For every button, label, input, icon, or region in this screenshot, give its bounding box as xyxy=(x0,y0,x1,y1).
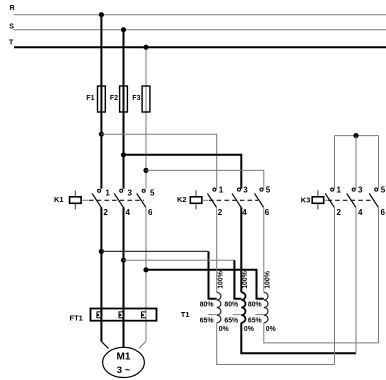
wire K2 pole2 to T1 winding2 top xyxy=(240,207,242,292)
motor M1 xyxy=(103,347,145,377)
junction dot phase1/K2 feed xyxy=(99,132,104,137)
wire K3 pole3 down xyxy=(378,207,380,343)
contactor K1 contact pole 2 xyxy=(114,189,123,207)
svg-text:80%: 80% xyxy=(224,302,238,309)
FT1 heater element phase3 xyxy=(142,312,147,318)
T1 winding2 65% tap stub xyxy=(233,314,242,316)
svg-text:3: 3 xyxy=(243,186,248,195)
svg-text:80%: 80% xyxy=(248,302,262,309)
wire phase2 vertical lower (K1 pole2 to motor) xyxy=(123,207,125,347)
K1 actuation dashed link xyxy=(89,199,144,201)
svg-text:T1: T1 xyxy=(181,310,190,319)
svg-text:F2: F2 xyxy=(110,95,118,102)
svg-text:5: 5 xyxy=(150,188,155,197)
wire K3 pole2 feed xyxy=(355,136,357,189)
T1 winding 2 xyxy=(241,292,245,322)
wire T1 winding2 0% to K3 pole2 xyxy=(241,323,356,354)
fuse F1 xyxy=(98,86,106,112)
svg-text:FT1: FT1 xyxy=(70,313,83,322)
wire T1 winding1 80% branch xyxy=(101,251,216,298)
svg-text:2: 2 xyxy=(337,208,342,217)
junction dot phase1/T1 tap branch xyxy=(99,249,104,254)
svg-text:100%: 100% xyxy=(265,271,272,289)
contactor K3 contact pole 3 xyxy=(369,188,378,207)
svg-text:65%: 65% xyxy=(200,317,214,324)
svg-text:1: 1 xyxy=(337,186,342,195)
wire K2 pole3 to T1 winding3 top xyxy=(263,207,265,292)
svg-text:6: 6 xyxy=(381,208,386,217)
svg-text:K2: K2 xyxy=(177,195,187,204)
T1 winding 1 xyxy=(217,292,221,322)
wire K3 pole1 down xyxy=(334,207,336,364)
contactor K1 coil xyxy=(70,190,89,209)
contactor K2 contact pole 3 xyxy=(255,188,264,207)
svg-text:M1: M1 xyxy=(117,352,131,363)
junction dot S/phase2 xyxy=(121,27,126,32)
wire T1 winding3 80% branch xyxy=(146,270,264,299)
svg-text:5: 5 xyxy=(266,186,271,195)
T1 winding1 65% tap stub xyxy=(208,314,217,316)
svg-text:65%: 65% xyxy=(224,317,238,324)
svg-text:6: 6 xyxy=(265,208,270,217)
svg-text:100%: 100% xyxy=(242,271,249,289)
wire phase2 vertical upper (S to K1 pole2) xyxy=(123,30,125,189)
fuse F2 xyxy=(120,86,128,112)
wire K3 star bus xyxy=(335,135,379,137)
svg-text:100%: 100% xyxy=(218,271,225,289)
svg-text:T: T xyxy=(9,39,14,46)
svg-text:0%: 0% xyxy=(219,326,229,333)
wire phase1 vertical upper (R to K1 pole1) xyxy=(100,15,102,189)
fuse F3 xyxy=(142,86,150,112)
svg-text:80%: 80% xyxy=(200,302,214,309)
wire S bus xyxy=(13,29,386,31)
svg-text:65%: 65% xyxy=(248,317,262,324)
junction dot phase2/K2 feed xyxy=(121,152,126,157)
wire K3 pole2 down xyxy=(355,207,357,353)
svg-text:K1: K1 xyxy=(54,195,64,204)
svg-text:F3: F3 xyxy=(132,95,140,102)
junction dot T/phase3 xyxy=(143,45,148,50)
K3 actuation dashed link xyxy=(328,199,373,201)
wire phase1 vertical lower (K1 pole1 to FT1) xyxy=(100,207,102,341)
svg-text:4: 4 xyxy=(358,208,363,217)
svg-text:5: 5 xyxy=(381,186,386,195)
T1 winding 3 xyxy=(264,292,268,322)
contactor K1 contact pole 1 xyxy=(92,189,101,207)
junction dot R/phase1 xyxy=(99,12,104,17)
contactor K2 contact pole 2 xyxy=(232,188,241,207)
wire K2 pole1 to T1 winding1 top xyxy=(216,207,218,292)
overload relay FT1 box xyxy=(91,309,157,321)
junction dot K3 star point xyxy=(353,133,358,138)
junction dot phase3/K2 feed xyxy=(143,168,148,173)
wire T bus xyxy=(14,46,386,48)
svg-text:R: R xyxy=(10,5,15,12)
svg-text:0%: 0% xyxy=(266,326,276,333)
junction dot phase3/T1 tap branch xyxy=(143,267,148,272)
wire phase3 vertical upper (T to K1 pole3) xyxy=(145,47,147,189)
svg-text:6: 6 xyxy=(148,208,153,217)
svg-text:4: 4 xyxy=(126,208,131,217)
contactor K2 contact pole 1 xyxy=(207,188,216,207)
wire phase3 vertical lower (K1 pole3 to FT1) xyxy=(145,207,147,341)
wire T1 winding3 0% to K3 pole3 xyxy=(264,323,379,343)
svg-text:0%: 0% xyxy=(244,326,254,333)
junction dot phase2/T1 tap branch xyxy=(121,258,126,263)
svg-text:3: 3 xyxy=(128,188,133,197)
svg-text:K3: K3 xyxy=(301,196,311,205)
T1 winding3 65% tap stub xyxy=(255,314,263,316)
svg-text:3 ~: 3 ~ xyxy=(117,365,131,376)
wire K3 pole3 feed xyxy=(378,136,380,189)
FT1 heater element phase2 xyxy=(119,312,124,318)
wire phase1 slant to motor xyxy=(101,341,108,348)
wire K2 pole2 feed xyxy=(124,155,242,189)
svg-text:2: 2 xyxy=(103,208,108,217)
wire T1 winding1 0% to K3 pole1 xyxy=(217,323,335,365)
contactor K2 coil xyxy=(190,190,208,209)
wire R bus xyxy=(14,14,386,16)
svg-text:1: 1 xyxy=(105,188,110,197)
wire K3 pole1 feed xyxy=(334,136,336,189)
FT1 heater element phase1 xyxy=(97,312,102,318)
svg-text:F1: F1 xyxy=(86,95,94,102)
wire T1 winding2 80% branch xyxy=(124,260,242,299)
contactor K3 contact pole 1 xyxy=(325,188,334,207)
wire K2 pole1 feed xyxy=(101,134,216,189)
svg-text:4: 4 xyxy=(242,208,247,217)
svg-text:3: 3 xyxy=(358,186,363,195)
svg-text:1: 1 xyxy=(219,186,224,195)
contactor K1 contact pole 3 xyxy=(137,189,146,207)
K2 actuation dashed link xyxy=(209,199,258,201)
wire phase3 slant to motor xyxy=(139,341,146,348)
wire K2 pole3 feed xyxy=(146,170,264,188)
contactor K3 contact pole 2 xyxy=(347,188,356,207)
contactor K3 coil xyxy=(312,190,327,209)
svg-text:2: 2 xyxy=(218,208,223,217)
